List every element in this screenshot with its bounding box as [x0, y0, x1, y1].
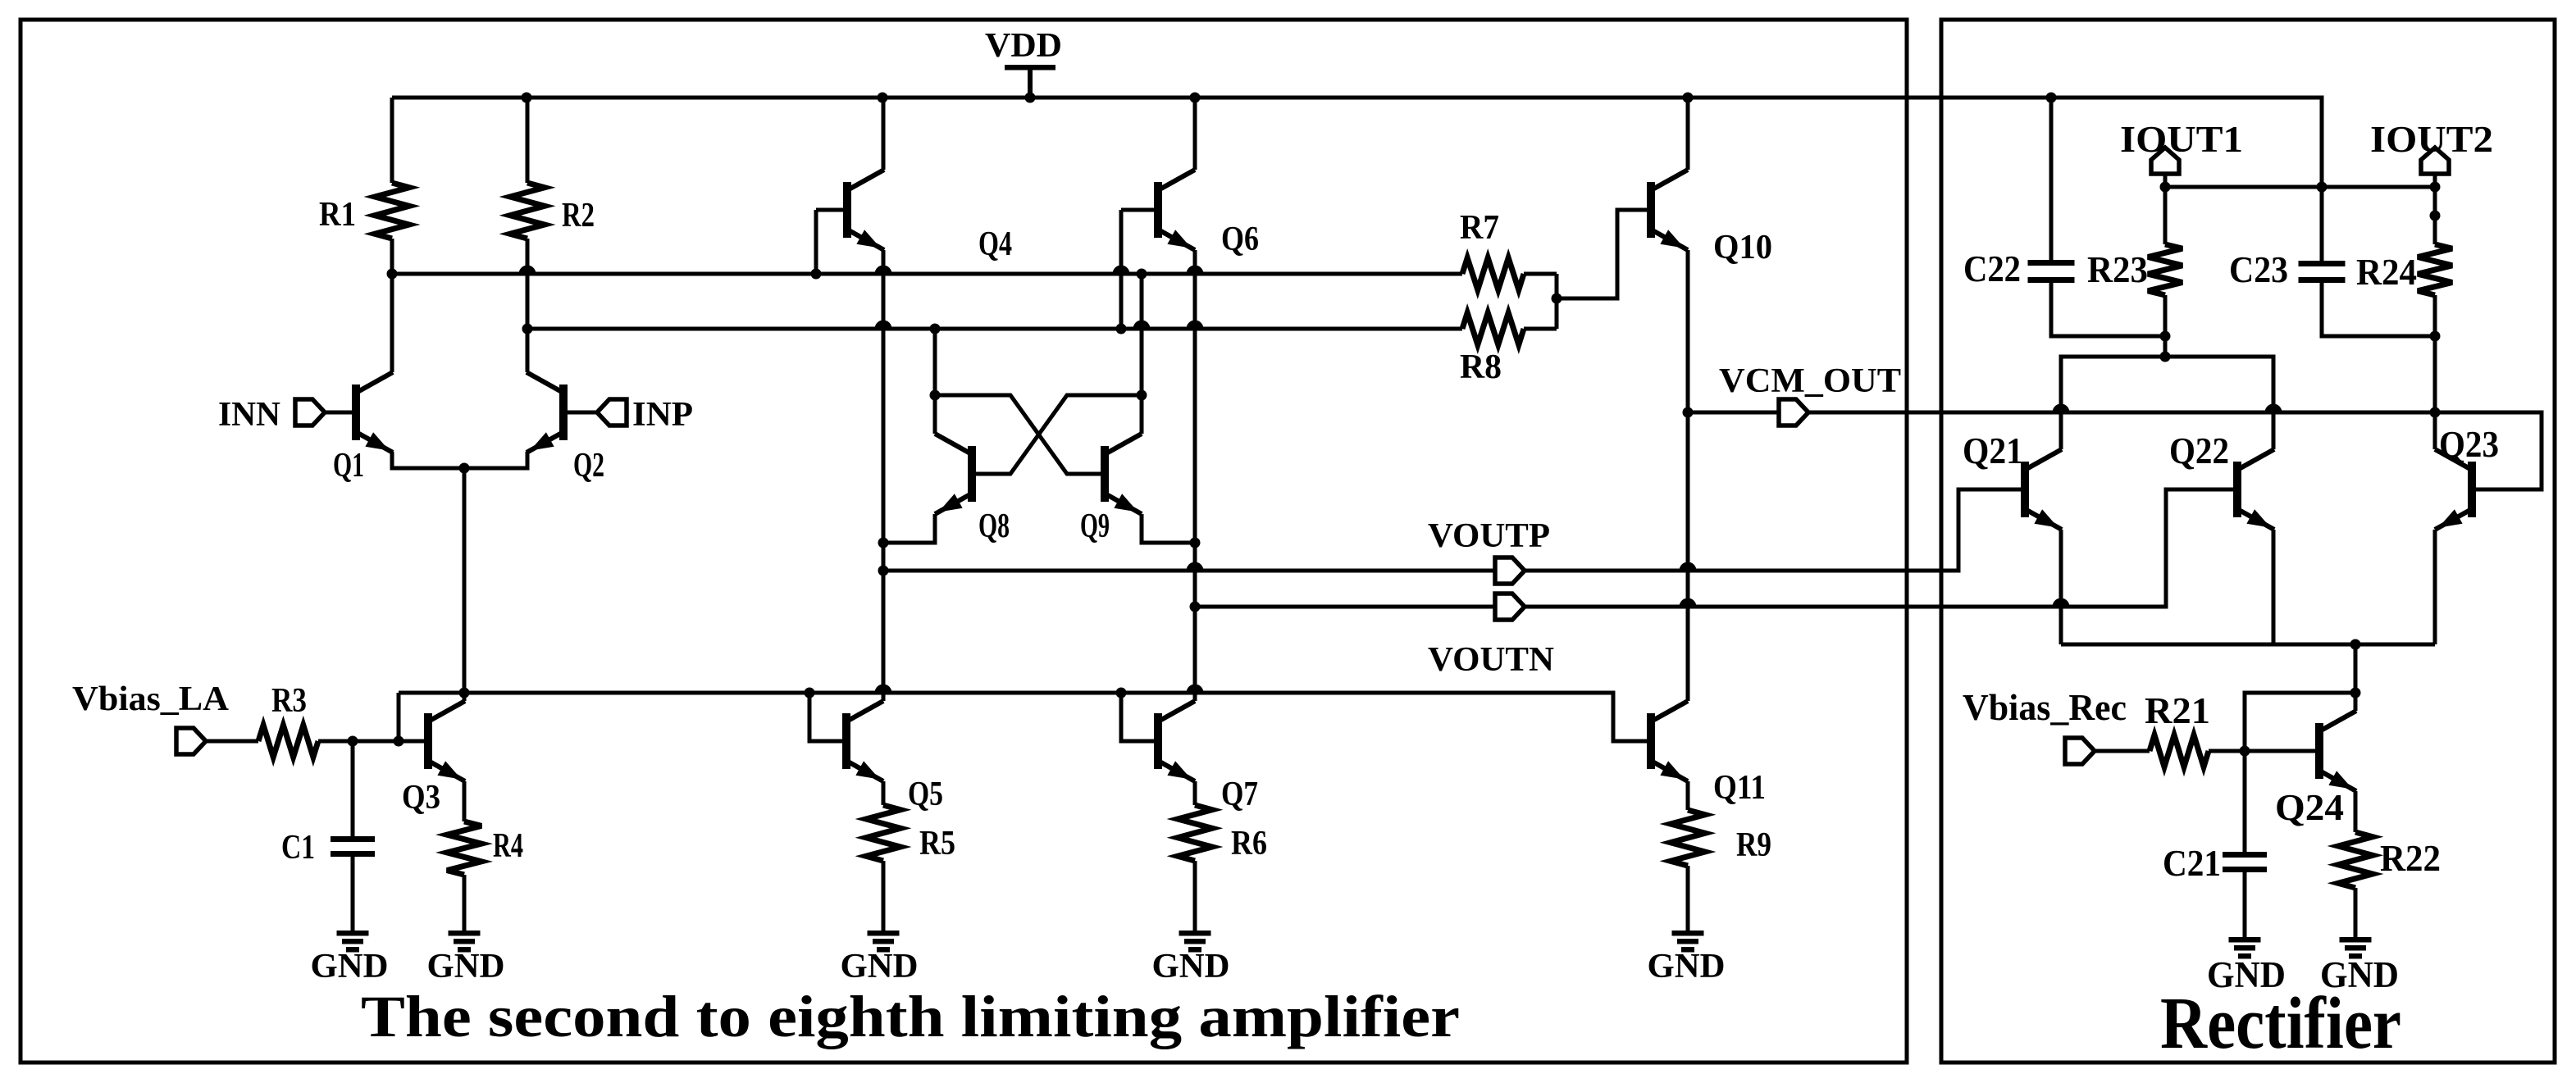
- wire Q9 collector/emitter: [1142, 274, 1201, 548]
- transistor Q10: [1651, 170, 1688, 250]
- wire cross-coupling right (to Q9 base): [930, 390, 1106, 475]
- capacitor C21: [2223, 751, 2267, 937]
- capacitor C23: [2299, 187, 2441, 342]
- svg-text:R7: R7: [1460, 209, 1499, 247]
- transistor Q6: [1158, 170, 1195, 250]
- svg-text:Q1: Q1: [333, 447, 364, 485]
- ground GND (R4): [449, 931, 481, 953]
- svg-text:Q22: Q22: [2169, 430, 2229, 471]
- svg-text:Q9: Q9: [1080, 507, 1110, 545]
- svg-text:R22: R22: [2380, 838, 2441, 879]
- svg-text:IOUT1: IOUT1: [2120, 118, 2243, 160]
- svg-text:Vbias_LA: Vbias_LA: [72, 680, 230, 718]
- wire VCM_OUT: [1683, 404, 2441, 418]
- enclosure: Rectifier block box: [1941, 20, 2555, 1063]
- wire R7/R8 junction to Q10 base: [1552, 210, 1652, 329]
- wire bus B (R2 load node): [522, 321, 1463, 334]
- wire Q21 emitter: [2059, 530, 2063, 644]
- wire Q8 collector/emitter: [878, 329, 936, 548]
- svg-text:R9: R9: [1736, 826, 1771, 864]
- transistor Q3: [428, 701, 465, 781]
- transistor Q21: [2025, 449, 2062, 530]
- ground GND (R6): [1179, 931, 1211, 953]
- wire Q6 base and leads: [1121, 98, 1195, 701]
- svg-text:Q8: Q8: [978, 507, 1010, 545]
- svg-text:C23: C23: [2229, 249, 2288, 290]
- transistor Q9: [1105, 434, 1142, 514]
- transistor Q4: [847, 170, 884, 250]
- resistor R1: [375, 98, 409, 372]
- wire VOUTN: [1190, 489, 2238, 612]
- svg-text:GND: GND: [1648, 948, 1726, 985]
- transistor Q7: [1158, 701, 1195, 781]
- power VDD symbol: [1005, 65, 1055, 98]
- svg-text:GND: GND: [841, 948, 919, 985]
- svg-text:R2: R2: [562, 197, 595, 234]
- svg-text:The second to eighth limiting: The second to eighth limiting amplifier: [361, 984, 1460, 1049]
- svg-text:Q11: Q11: [1713, 769, 1766, 807]
- resistor R2: [510, 98, 545, 372]
- svg-text:GND: GND: [311, 948, 389, 985]
- svg-text:INN: INN: [218, 396, 280, 434]
- resistor R21: [2150, 735, 2209, 767]
- svg-text:Q5: Q5: [908, 776, 943, 813]
- svg-text:C21: C21: [2163, 843, 2221, 884]
- svg-text:VCM_OUT: VCM_OUT: [1719, 362, 1901, 400]
- wire Vbias node to Q3 base: [318, 693, 428, 747]
- resistor R7: [1462, 258, 1557, 290]
- port VOUTN: [1495, 594, 1525, 620]
- transistor Q8: [935, 434, 972, 514]
- ground GND (R5): [868, 931, 900, 953]
- transistor Q1: [356, 372, 393, 453]
- svg-text:GND: GND: [2207, 954, 2286, 995]
- port VOUTP: [1495, 557, 1525, 584]
- wire cross-coupling left (to Q8 base): [972, 390, 1147, 475]
- svg-text:Q4: Q4: [978, 225, 1012, 263]
- svg-text:R4: R4: [493, 827, 523, 865]
- svg-text:GND: GND: [2320, 954, 2399, 995]
- svg-text:Q23: Q23: [2439, 424, 2499, 465]
- wire rectifier emitter bus: [2061, 639, 2435, 650]
- port IOUT1: [2151, 148, 2179, 187]
- ground GND (R22): [2340, 937, 2372, 959]
- svg-text:R5: R5: [919, 825, 955, 862]
- ground GND (C21): [2229, 937, 2261, 959]
- transistor Q24: [2319, 711, 2356, 791]
- svg-text:C22: C22: [1963, 248, 2021, 289]
- port Vbias_Rec: [2065, 738, 2150, 764]
- resistor R24: [2418, 187, 2452, 412]
- transistor Q23: [2435, 449, 2472, 530]
- wire Q5 base stub: [809, 693, 846, 741]
- wire Q23 leads and base loop: [2435, 412, 2542, 644]
- wire VDD rail: [392, 93, 2328, 193]
- transistor Q2: [527, 372, 563, 453]
- ground GND (R9): [1672, 931, 1704, 953]
- wire emitter tail of Q1/Q2: [392, 452, 527, 701]
- svg-text:Q24: Q24: [2275, 787, 2344, 828]
- svg-text:VOUTP: VOUTP: [1428, 517, 1550, 555]
- svg-text:Q3: Q3: [402, 779, 440, 817]
- wire VOUTP: [878, 489, 2026, 576]
- transistor Q22: [2237, 449, 2274, 530]
- wire Q7 base stub: [1121, 693, 1158, 741]
- resistor R8: [1462, 313, 1557, 345]
- ground GND (C1): [337, 931, 369, 953]
- capacitor C1: [331, 741, 375, 931]
- svg-text:IOUT2: IOUT2: [2370, 118, 2493, 160]
- svg-text:Vbias_Rec: Vbias_Rec: [1963, 687, 2127, 728]
- svg-text:VOUTN: VOUTN: [1428, 641, 1554, 679]
- resistor R5: [866, 781, 900, 931]
- wire bus A (R1 load node): [387, 266, 1463, 280]
- resistor R23: [2148, 187, 2182, 357]
- port INP: [563, 399, 627, 425]
- resistor R22: [2338, 791, 2373, 937]
- svg-text:C1: C1: [281, 829, 315, 867]
- svg-text:Q21: Q21: [1963, 430, 2023, 471]
- svg-text:R6: R6: [1231, 825, 1267, 862]
- svg-text:Q2: Q2: [573, 447, 604, 485]
- svg-text:INP: INP: [632, 396, 693, 434]
- wire bias rail: [399, 685, 1651, 742]
- svg-text:GND: GND: [1152, 948, 1230, 985]
- port IOUT2: [2421, 148, 2449, 187]
- svg-text:GND: GND: [427, 948, 505, 985]
- svg-text:R3: R3: [271, 682, 307, 720]
- capacitor C22: [2028, 98, 2171, 342]
- port Vbias_LA: [176, 728, 258, 754]
- resistor R9: [1671, 781, 1705, 931]
- wire Q22 emitter: [2272, 530, 2276, 644]
- svg-text:R24: R24: [2356, 252, 2417, 293]
- svg-text:R1: R1: [319, 196, 356, 234]
- wire Vbias_Rec node to Q24 base: [2209, 746, 2319, 757]
- svg-text:Q10: Q10: [1713, 229, 1772, 266]
- transistor Q5: [846, 701, 883, 781]
- svg-text:R21: R21: [2145, 690, 2210, 731]
- svg-text:VDD: VDD: [985, 27, 1062, 65]
- svg-text:R8: R8: [1460, 348, 1502, 386]
- port VCM_OUT: [1779, 399, 1808, 425]
- wire collector tie Q21/Q22: [2061, 352, 2273, 450]
- svg-text:Q7: Q7: [1221, 776, 1258, 813]
- wire Q4 base and leads: [816, 98, 883, 701]
- wire IOUT1-IOUT2 node: [2160, 182, 2441, 193]
- svg-text:R23: R23: [2087, 249, 2148, 290]
- svg-text:Q6: Q6: [1221, 221, 1259, 258]
- enclosure: limiting amplifier block box: [21, 20, 1907, 1063]
- resistor R3: [258, 726, 318, 758]
- wire Q10 leads: [1686, 98, 1690, 701]
- port INN: [295, 399, 356, 425]
- resistor R4: [447, 781, 481, 931]
- transistor Q11: [1651, 701, 1688, 781]
- wire Q24 collector and diode tie: [2245, 644, 2361, 751]
- resistor R6: [1178, 781, 1212, 931]
